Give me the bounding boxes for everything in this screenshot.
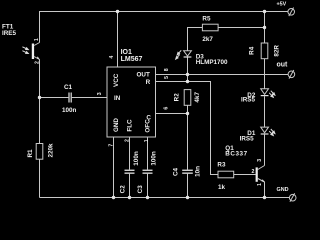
svg-text:R3: R3 bbox=[217, 161, 226, 168]
wire VCC pin4 riser bbox=[117, 12, 119, 68]
svg-text:IRE5: IRE5 bbox=[2, 30, 16, 37]
junction node rail C4 bbox=[186, 196, 189, 199]
wire C1 to IN pin3 bbox=[72, 97, 107, 99]
wire R1 bottom to rail bbox=[39, 159, 41, 197]
junction node rail C3 bbox=[146, 196, 149, 199]
wire R5 right to +5V branch bbox=[218, 27, 264, 29]
phototransistor FT1 light arrow a bbox=[22, 47, 28, 54]
wire R3 to Q1 base bbox=[234, 174, 256, 176]
capacitor C2 plates bbox=[125, 170, 135, 171]
svg-text:C4: C4 bbox=[172, 167, 179, 176]
LED D3 emission arrows bbox=[176, 50, 182, 59]
svg-text:2k7: 2k7 bbox=[202, 36, 213, 43]
connector GND pad bbox=[289, 193, 296, 202]
svg-text:C2: C2 bbox=[120, 185, 127, 194]
svg-text:3: 3 bbox=[257, 159, 263, 162]
wire R pin5 to R3 riser bbox=[156, 82, 219, 175]
resistor R5 bbox=[202, 24, 218, 31]
svg-text:FLC: FLC bbox=[127, 119, 134, 132]
wire GND pin7 down bbox=[113, 137, 115, 198]
junction node FT1-C1-R1 bbox=[38, 96, 41, 99]
junction node R2 top pin5 bbox=[186, 80, 189, 83]
junction node rail Q1 emitter bbox=[263, 196, 266, 199]
svg-text:BC337: BC337 bbox=[225, 151, 247, 158]
svg-text:LM567: LM567 bbox=[121, 56, 143, 63]
wire D3 cathode down to OUT line bbox=[187, 57, 189, 81]
svg-text:1: 1 bbox=[144, 139, 150, 142]
resistor R2 bbox=[184, 90, 191, 106]
junction node rail pin7 bbox=[112, 196, 115, 199]
svg-text:out: out bbox=[277, 61, 289, 68]
phototransistor FT1 collector/emitter legs bbox=[34, 43, 39, 60]
svg-text:7: 7 bbox=[109, 144, 115, 147]
phototransistor FT1 base bar bbox=[32, 44, 34, 60]
svg-text:100n: 100n bbox=[133, 151, 140, 166]
svg-text:R: R bbox=[146, 79, 151, 86]
svg-text:220k: 220k bbox=[48, 143, 55, 158]
svg-text:IRS5: IRS5 bbox=[241, 97, 255, 104]
wire +5V branch down to R4 bbox=[264, 12, 266, 44]
wire R2 bottom to C4 to bottom rail bbox=[187, 105, 189, 169]
svg-text:100n: 100n bbox=[151, 151, 158, 166]
capacitor C1 plates bbox=[68, 93, 69, 103]
LED D3 triangle bbox=[184, 51, 192, 56]
LED D1 emission arrows bbox=[269, 129, 275, 136]
connector out pad bbox=[288, 70, 295, 79]
svg-text:GND: GND bbox=[113, 118, 120, 132]
svg-text:5: 5 bbox=[164, 76, 170, 79]
svg-text:R1: R1 bbox=[27, 149, 34, 158]
svg-text:R5: R5 bbox=[202, 16, 211, 23]
svg-text:4: 4 bbox=[109, 56, 115, 59]
LED D2 cathode bar bbox=[261, 95, 269, 96]
wire R4 bottom through D2 D1 to Q1 collector bbox=[264, 59, 266, 89]
LED D2 triangle bbox=[261, 89, 269, 95]
transistor Q1 base bar bbox=[256, 167, 258, 181]
capacitor C4 plates bbox=[182, 170, 193, 171]
svg-text:IN: IN bbox=[114, 95, 121, 102]
connector +5V pad bbox=[288, 8, 295, 17]
resistor R1 bbox=[36, 144, 43, 160]
capacitor C3 plates bbox=[143, 170, 153, 171]
svg-text:2: 2 bbox=[35, 61, 41, 64]
svg-text:C1: C1 bbox=[64, 84, 73, 91]
svg-text:1k: 1k bbox=[218, 184, 226, 191]
svg-text:OFC: OFC bbox=[144, 119, 151, 133]
svg-text:+5V: +5V bbox=[277, 1, 287, 7]
svg-text:C3: C3 bbox=[137, 185, 144, 194]
wire FLC pin2 to C2 bbox=[129, 137, 131, 170]
phototransistor FT1 emitter arrowhead bbox=[37, 56, 40, 59]
svg-text:HLMP1700: HLMP1700 bbox=[196, 59, 228, 66]
svg-text:2: 2 bbox=[125, 139, 131, 142]
svg-text:R2: R2 bbox=[174, 93, 181, 102]
svg-text:3: 3 bbox=[97, 92, 103, 95]
svg-text:100n: 100n bbox=[62, 107, 77, 114]
wire C pin6 to R2/C4 node bbox=[156, 113, 188, 115]
svg-text:R4: R4 bbox=[249, 46, 256, 55]
resistor R3 bbox=[218, 171, 234, 178]
LED D1 cathode bar bbox=[261, 133, 269, 134]
wire OUT pin8 to out connector bbox=[156, 74, 289, 76]
junction node top rail R4 bbox=[263, 10, 266, 13]
junction node R5-R4 bbox=[263, 26, 266, 29]
svg-text:IRS5: IRS5 bbox=[240, 135, 254, 142]
resistor R4 bbox=[261, 43, 268, 59]
junction node pin6 R2-C4 bbox=[186, 112, 189, 115]
LED D2 emission arrows bbox=[269, 91, 275, 98]
junction node D3-OUT bbox=[186, 73, 189, 76]
wire FT1 emitter down to R1 bbox=[39, 60, 41, 144]
transistor Q1 emitter arrowhead bbox=[262, 179, 265, 182]
wire R5 left to D3 top bbox=[188, 28, 203, 51]
transistor Q1 collector/emitter legs bbox=[234, 166, 265, 183]
svg-text:1: 1 bbox=[257, 183, 263, 186]
junction node rail C2 bbox=[128, 196, 131, 199]
svg-text:2: 2 bbox=[252, 169, 255, 175]
junction node top rail pin4 bbox=[116, 10, 119, 13]
svg-text:GND: GND bbox=[277, 187, 289, 193]
svg-text:6: 6 bbox=[163, 107, 169, 110]
LED D1 triangle bbox=[261, 127, 269, 133]
IC IO1 LM567 body bbox=[107, 67, 156, 137]
svg-text:82R: 82R bbox=[274, 45, 281, 57]
svg-text:4k7: 4k7 bbox=[194, 92, 201, 103]
wire OFC pin1 to C3 bbox=[147, 137, 149, 170]
svg-text:OUT: OUT bbox=[137, 72, 150, 79]
svg-text:8: 8 bbox=[164, 68, 170, 71]
LED D3 cathode bar bbox=[184, 56, 192, 57]
wire bottom rail bbox=[40, 197, 290, 199]
wire node to C1 bbox=[40, 97, 69, 99]
wire top rail bbox=[40, 12, 289, 43]
wire Q1 emitter to bottom rail bbox=[264, 182, 266, 198]
phototransistor FT1 light arrow b bbox=[22, 51, 27, 53]
svg-text:1: 1 bbox=[34, 38, 40, 41]
svg-text:10n: 10n bbox=[194, 166, 201, 177]
svg-text:VCC: VCC bbox=[113, 73, 120, 87]
